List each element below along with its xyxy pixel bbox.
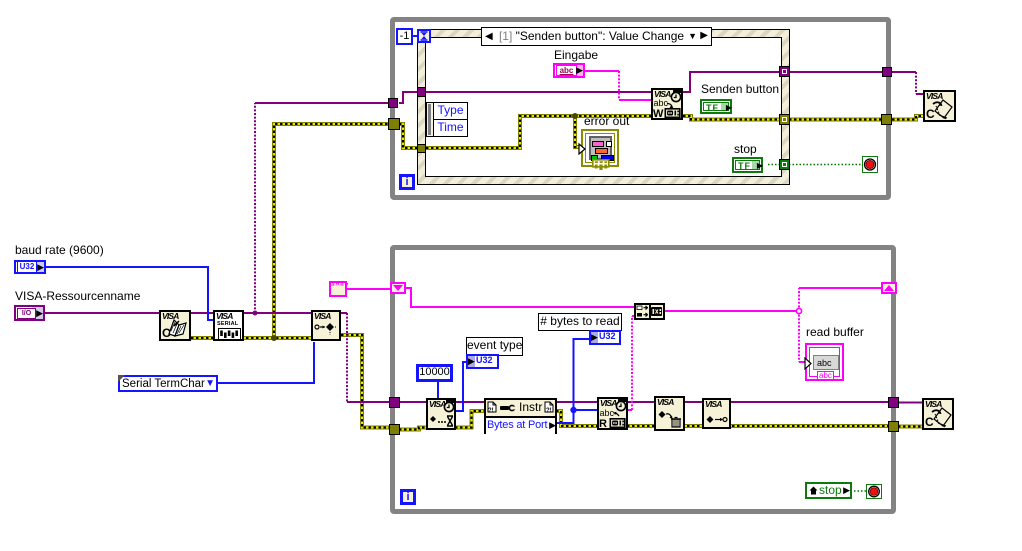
- svg-text:abc: abc: [600, 408, 615, 418]
- svg-text:W: W: [653, 108, 664, 118]
- svg-text:R: R: [599, 418, 607, 428]
- svg-text:abc: abc: [654, 98, 669, 108]
